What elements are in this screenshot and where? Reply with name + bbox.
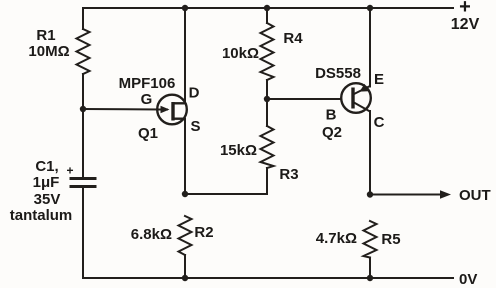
node junction dot R4/R3 divider	[264, 96, 270, 102]
wire gate lead	[83, 108, 160, 111]
svg-text:B: B	[326, 107, 337, 124]
wire base lead	[267, 98, 353, 100]
wire left column (R1 to C1)	[82, 74, 84, 177]
svg-text:10MΩ: 10MΩ	[28, 43, 69, 60]
svg-text:0V: 0V	[459, 271, 477, 288]
svg-text:R5: R5	[381, 231, 400, 248]
svg-text:R3: R3	[279, 166, 298, 183]
resistor R4	[261, 23, 274, 80]
svg-text:G: G	[141, 91, 153, 108]
svg-text:1μF: 1μF	[33, 174, 60, 191]
wire Q2 collector column	[369, 111, 371, 195]
svg-text:R1: R1	[36, 27, 55, 44]
svg-text:+: +	[66, 164, 73, 178]
wire R3 bottom lead	[266, 168, 268, 194]
svg-text:12V: 12V	[451, 16, 480, 33]
svg-text:C1,: C1,	[35, 158, 58, 175]
wire R5 bottom lead	[369, 258, 371, 279]
node junction dot R5 / 0V rail	[367, 275, 373, 281]
svg-text:35V: 35V	[34, 191, 61, 208]
wire OUT lead	[370, 194, 443, 196]
wire Q2 emitter column	[369, 8, 371, 87]
svg-text:R2: R2	[194, 224, 213, 241]
node junction dot gate / C1	[80, 106, 86, 112]
svg-text:D: D	[189, 85, 200, 102]
wire source/R3 horizontal link	[185, 193, 267, 195]
svg-text:MPF106: MPF106	[119, 75, 176, 92]
resistor R2	[179, 216, 192, 255]
wire top supply rail	[83, 7, 453, 9]
wire Q1 source column	[184, 119, 186, 194]
svg-text:S: S	[190, 118, 200, 135]
resistor R1	[77, 29, 90, 74]
node junction dot source/R2/R3	[182, 191, 188, 197]
resistor R3	[261, 126, 274, 168]
svg-text:C: C	[374, 114, 385, 131]
resistor R5	[364, 221, 377, 258]
node junction dot top rail / R4	[264, 5, 270, 11]
transistor Q1 MPF106 JFET	[157, 95, 187, 125]
wire left column upper (rail to R1)	[82, 8, 84, 29]
wire left column lower (C1 to bottom rail)	[82, 188, 84, 278]
wire Q1 drain column	[184, 8, 186, 103]
node junction dot top rail / Q2 emitter	[367, 5, 373, 11]
svg-text:DS558: DS558	[315, 65, 361, 82]
svg-text:Q2: Q2	[322, 124, 342, 141]
transistor Q2 DS558 PNP	[341, 83, 371, 113]
svg-text:15kΩ: 15kΩ	[220, 142, 257, 159]
node junction dot R2 / 0V rail	[182, 275, 188, 281]
wire R4 to junction	[266, 80, 268, 126]
svg-text:6.8kΩ: 6.8kΩ	[131, 226, 172, 243]
wire R4 top lead	[266, 8, 268, 23]
wire bottom 0V rail	[83, 277, 453, 279]
wire R2 to bottom rail	[184, 255, 186, 278]
OUT arrowhead	[440, 190, 451, 198]
capacitor C1	[71, 177, 95, 180]
svg-text:10kΩ: 10kΩ	[222, 45, 259, 62]
svg-text:Q1: Q1	[138, 125, 158, 142]
svg-text:OUT: OUT	[459, 187, 491, 204]
node junction dot top rail / Q1 drain	[182, 5, 188, 11]
svg-text:E: E	[374, 71, 384, 88]
svg-text:4.7kΩ: 4.7kΩ	[316, 230, 357, 247]
svg-text:R4: R4	[283, 30, 303, 47]
svg-text:tantalum: tantalum	[10, 207, 73, 224]
node junction dot collector/OUT/R5	[367, 191, 373, 197]
